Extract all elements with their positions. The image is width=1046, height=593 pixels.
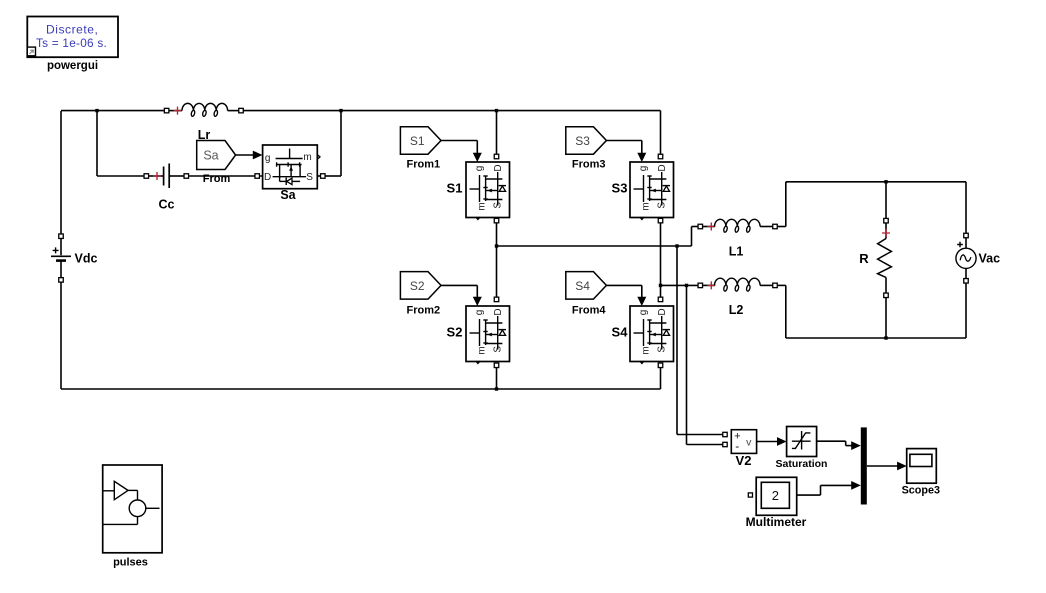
svg-text:S1: S1 xyxy=(410,134,425,148)
saturation block xyxy=(787,427,817,457)
wire: Multimeter to Mux xyxy=(797,494,821,496)
wire: load top bus xyxy=(786,181,966,183)
transistor Q2 S2 (Mosfet block, rotated) xyxy=(466,306,510,364)
svg-text:S3: S3 xyxy=(575,134,590,148)
port: S3 drain xyxy=(658,154,663,159)
svg-text:D: D xyxy=(264,172,271,183)
svg-text:2: 2 xyxy=(772,488,779,503)
svg-text:V2: V2 xyxy=(736,453,752,468)
port: S2 drain xyxy=(494,297,499,302)
wire: From2 to S2 gate xyxy=(441,284,477,286)
svg-text:v: v xyxy=(746,436,752,448)
wire: V2 to Saturation xyxy=(757,441,778,443)
svg-text:From2: From2 xyxy=(406,305,440,317)
svg-text:D: D xyxy=(493,164,504,171)
svg-text:D: D xyxy=(493,308,504,315)
svg-text:L1: L1 xyxy=(729,244,744,258)
wire: S1 source to S2 drain xyxy=(496,223,498,297)
svg-text:S3: S3 xyxy=(612,180,628,195)
svg-text:Scope3: Scope3 xyxy=(902,485,940,497)
wire: riser top bus to S1 drain xyxy=(496,111,498,155)
svg-text:D: D xyxy=(657,308,668,315)
From tag S1 xyxy=(400,127,441,155)
svg-text:Cc: Cc xyxy=(159,198,175,212)
junction: R bottom xyxy=(884,336,887,339)
wire: From tag to Sa gate xyxy=(236,154,254,156)
transistor Q4 S4 (Mosfet block, rotated) xyxy=(630,306,674,364)
junction: node A (left bridge midpoint) xyxy=(495,244,498,247)
svg-text:From: From xyxy=(203,173,231,185)
svg-text:Sa: Sa xyxy=(203,148,218,162)
svg-text:From3: From3 xyxy=(572,158,606,170)
svg-text:Saturation: Saturation xyxy=(776,458,828,470)
svg-text:g: g xyxy=(638,166,649,172)
svg-text:m: m xyxy=(477,202,488,210)
wire: R to bottom bus xyxy=(885,298,887,338)
wire: load bottom bus xyxy=(786,337,966,339)
svg-text:Multimeter: Multimeter xyxy=(746,515,807,529)
wire: Sa source up to top bus xyxy=(317,175,320,177)
port: S1 source xyxy=(494,218,499,223)
svg-text:-: - xyxy=(735,439,739,453)
junction: V2 minus tap xyxy=(685,284,688,287)
svg-text:D: D xyxy=(657,164,668,171)
port: S4 source xyxy=(658,363,663,368)
transistor Q1 S1 (Mosfet block, rotated) xyxy=(466,162,510,220)
wire: bottom DC bus xyxy=(61,388,661,390)
wire: top DC bus xyxy=(61,110,164,112)
From tag S3 xyxy=(566,127,607,155)
wire: L2 to load bottom bus xyxy=(777,284,786,286)
port: S2 source xyxy=(494,363,499,368)
multimeter block xyxy=(748,477,796,515)
svg-text:powergui: powergui xyxy=(47,60,98,72)
dc source Vdc xyxy=(51,234,71,282)
svg-text:S2: S2 xyxy=(447,324,463,339)
capacitor Cc xyxy=(144,164,189,189)
svg-text:Discrete,: Discrete, xyxy=(46,23,98,37)
junction: node B (right bridge midpoint) xyxy=(659,284,662,287)
svg-text:g: g xyxy=(474,310,485,316)
wire: Cc to Sa drain xyxy=(189,175,263,177)
subsystem pulses xyxy=(103,465,162,553)
wire: top bus to Vac xyxy=(965,182,967,233)
svg-text:S4: S4 xyxy=(575,279,590,293)
svg-text:m: m xyxy=(641,202,652,210)
svg-text:Vdc: Vdc xyxy=(75,251,98,265)
junction: Sa output joins top bus xyxy=(339,109,342,112)
wire: capacitor branch xyxy=(96,111,98,176)
svg-text:Sa: Sa xyxy=(280,188,296,202)
junction: R top xyxy=(884,180,887,183)
wire: L1 to load top bus xyxy=(777,226,786,228)
svg-text:g: g xyxy=(265,153,271,164)
svg-text:m: m xyxy=(641,346,652,354)
wire: Saturation to Mux xyxy=(817,440,846,442)
svg-text:From1: From1 xyxy=(406,158,440,170)
port: Sa D input xyxy=(255,174,260,179)
svg-text:Ts = 1e-06 s.: Ts = 1e-06 s. xyxy=(36,36,107,50)
mux xyxy=(861,427,867,504)
svg-text:Vac: Vac xyxy=(979,252,1001,266)
wire: From3 to S3 gate xyxy=(606,140,641,142)
wire: top bus to R xyxy=(885,182,887,219)
svg-text:S: S xyxy=(306,172,313,183)
voltmeter V2 xyxy=(723,430,757,454)
port: S3 source xyxy=(658,218,663,223)
svg-text:m: m xyxy=(303,152,311,163)
svg-text:S4: S4 xyxy=(612,324,629,339)
wire: From4 to S4 gate xyxy=(606,284,641,286)
svg-text:g: g xyxy=(474,166,485,172)
junction: S1 leg on top bus xyxy=(495,109,498,112)
scope Scope3 xyxy=(907,449,937,484)
inductor Lr xyxy=(164,103,243,116)
svg-text:m: m xyxy=(477,346,488,354)
transistor Sa (Mosfet block) xyxy=(263,145,320,189)
wire: node A to L1 xyxy=(497,245,692,247)
ac source Vac xyxy=(956,233,976,283)
wire: Vac to bottom bus xyxy=(965,283,967,338)
wire: S3 source to S4 drain xyxy=(660,223,662,297)
transistor Q3 S3 (Mosfet block, rotated) xyxy=(630,162,674,220)
inductor L2 xyxy=(698,278,777,291)
wire: Vdc to bottom bus xyxy=(60,282,62,389)
wire: S2 source to bottom bus xyxy=(496,368,498,390)
From tag Sa xyxy=(197,141,236,170)
junction: cap branch on top bus xyxy=(95,109,98,112)
svg-text:S1: S1 xyxy=(447,180,463,195)
svg-text:R: R xyxy=(859,251,869,266)
wire: Mux to Scope3 xyxy=(867,465,898,467)
svg-text:S2: S2 xyxy=(410,279,425,293)
From tag S2 xyxy=(400,272,441,300)
svg-text:g: g xyxy=(638,310,649,316)
powergui block xyxy=(27,17,118,58)
inductor L1 xyxy=(698,219,777,232)
junction: S2 leg on bottom bus xyxy=(495,387,498,390)
svg-text:pulses: pulses xyxy=(113,557,148,569)
svg-text:From4: From4 xyxy=(572,305,607,317)
svg-text:L2: L2 xyxy=(729,303,744,317)
From tag S4 xyxy=(566,272,607,300)
port: S4 drain xyxy=(658,297,663,302)
port: S1 drain xyxy=(494,154,499,159)
wire: From1 to S1 gate xyxy=(441,140,477,142)
wire: node B to L2 xyxy=(661,284,699,286)
resistor R xyxy=(878,218,892,297)
wire: V2 plus lead xyxy=(676,246,678,435)
junction: V2 plus tap xyxy=(675,244,678,247)
wire: V2 minus lead xyxy=(686,285,688,444)
